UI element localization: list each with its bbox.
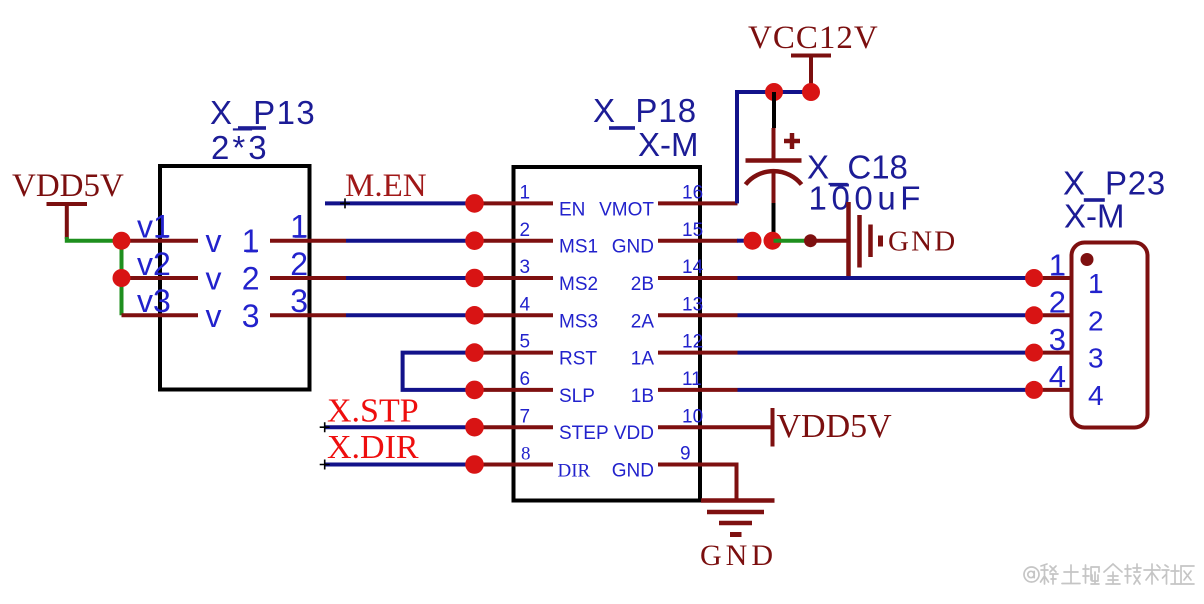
svg-text:100uF: 100uF bbox=[809, 180, 926, 217]
svg-text:X-M: X-M bbox=[638, 126, 699, 163]
svg-text:MS2: MS2 bbox=[559, 274, 598, 295]
cursor cross bbox=[320, 460, 330, 470]
junction dot pin3 bbox=[465, 269, 484, 288]
pin v2 of X_P13 bbox=[122, 246, 222, 297]
wire X.DIR to DIR bbox=[325, 463, 475, 467]
svg-text:16: 16 bbox=[682, 183, 703, 204]
wire green pin15 bbox=[774, 239, 812, 243]
pin 1 of X_P13 bbox=[242, 209, 346, 260]
wire 1A to X_P23 pin3 bbox=[738, 351, 1035, 355]
cursor cross bbox=[320, 422, 330, 432]
wire pin15 stub blue bbox=[737, 239, 747, 243]
IC X_P18 bbox=[514, 167, 701, 501]
svg-text:6: 6 bbox=[520, 369, 531, 390]
wire 2B to X_P23 pin1 bbox=[738, 276, 1035, 280]
junction dot v2 bbox=[113, 269, 131, 287]
wire X_P13 pin1 to MS1 bbox=[346, 239, 475, 243]
svg-text:MS3: MS3 bbox=[559, 311, 598, 332]
svg-text:4: 4 bbox=[1049, 359, 1066, 394]
svg-text:v3: v3 bbox=[137, 283, 171, 319]
wire green bus v1-v3 bbox=[120, 241, 124, 316]
wire green VDD5V to v1 bbox=[67, 237, 122, 241]
svg-text:15: 15 bbox=[682, 220, 703, 241]
svg-text:1: 1 bbox=[520, 183, 531, 204]
svg-text:3: 3 bbox=[1088, 343, 1104, 374]
polarity dot X_P23 bbox=[1081, 253, 1094, 266]
wire X_P13 pin2 to MS2 bbox=[346, 276, 475, 280]
svg-text:4: 4 bbox=[1088, 380, 1104, 411]
junction dot v1 bbox=[113, 232, 131, 250]
junction dot pin4 bbox=[465, 306, 484, 325]
svg-text:v2: v2 bbox=[137, 246, 171, 282]
svg-text:VCC12V: VCC12V bbox=[748, 20, 879, 56]
junction dot pin8 bbox=[465, 455, 484, 474]
wire to GND symbol bbox=[811, 239, 849, 243]
svg-text:2: 2 bbox=[1049, 285, 1066, 320]
svg-text:4: 4 bbox=[520, 294, 531, 315]
svg-text:v1: v1 bbox=[137, 209, 171, 245]
svg-text:VDD5V: VDD5V bbox=[777, 408, 893, 445]
svg-text:2B: 2B bbox=[631, 274, 654, 295]
junction dot pin2 bbox=[465, 231, 484, 250]
svg-text:3: 3 bbox=[520, 257, 531, 278]
pin 3 of X_P23 bbox=[1034, 322, 1104, 374]
wire X_P13 pin3 to MS3 bbox=[346, 313, 475, 317]
junction dot P23 pin3 bbox=[1025, 344, 1043, 362]
wire M.EN to pin1 bbox=[325, 201, 475, 205]
svg-text:STEP: STEP bbox=[559, 423, 609, 444]
digit serif feet bbox=[157, 207, 1102, 293]
pin v1 of X_P13 bbox=[122, 209, 222, 260]
pin 14 2B bbox=[631, 257, 738, 295]
svg-text:GND: GND bbox=[700, 539, 777, 572]
svg-text:DIR: DIR bbox=[558, 461, 591, 482]
junction dot pin15 b bbox=[764, 232, 782, 250]
svg-text:1: 1 bbox=[290, 209, 308, 245]
wire cap bottom (black) bbox=[772, 203, 776, 236]
watermark bbox=[1024, 564, 1194, 584]
cursor cross bbox=[340, 198, 350, 208]
wire RST to SLP loop bbox=[403, 353, 475, 390]
svg-text:2: 2 bbox=[520, 220, 531, 241]
svg-text:3: 3 bbox=[290, 283, 308, 319]
svg-text:GND: GND bbox=[888, 226, 957, 258]
svg-text:v: v bbox=[206, 261, 222, 297]
ground GND (side) bbox=[849, 202, 958, 280]
svg-text:2: 2 bbox=[290, 246, 308, 282]
svg-text:X_P13: X_P13 bbox=[210, 94, 316, 131]
pin 8 DIR bbox=[475, 444, 591, 482]
pin 4 of X_P23 bbox=[1034, 359, 1104, 411]
wire 1B to X_P23 pin4 bbox=[738, 388, 1035, 392]
svg-text:10: 10 bbox=[682, 406, 703, 427]
pin 1 of X_P23 bbox=[1034, 247, 1104, 299]
svg-text:MS1: MS1 bbox=[559, 237, 598, 258]
svg-text:VDD: VDD bbox=[614, 423, 654, 444]
junction dot pin7 bbox=[465, 418, 484, 437]
pin 4 MS3 bbox=[475, 294, 599, 332]
svg-text:RST: RST bbox=[559, 349, 597, 370]
svg-text:7: 7 bbox=[520, 406, 531, 427]
svg-text:11: 11 bbox=[682, 369, 702, 390]
junction dot pin5 bbox=[465, 343, 484, 362]
svg-text:14: 14 bbox=[682, 257, 704, 278]
junction dot P23 pin2 bbox=[1025, 306, 1043, 324]
pin 3 of X_P13 bbox=[242, 283, 346, 334]
wire 2A to X_P23 pin2 bbox=[738, 313, 1035, 317]
svg-text:GND: GND bbox=[612, 237, 654, 258]
pin 13 2A bbox=[631, 294, 738, 332]
pin 7 STEP bbox=[475, 406, 609, 444]
svg-text:X_P23: X_P23 bbox=[1063, 165, 1166, 202]
svg-text:5: 5 bbox=[520, 332, 531, 353]
pin v3 of X_P13 bbox=[122, 283, 222, 334]
junction dot pin6 bbox=[465, 381, 484, 400]
pin 11 1B bbox=[631, 369, 738, 407]
power symbol VDD5V (pin10) bbox=[773, 408, 893, 447]
svg-text:X_P18: X_P18 bbox=[593, 92, 697, 129]
svg-text:X.STP: X.STP bbox=[327, 392, 419, 429]
svg-text:M.EN: M.EN bbox=[345, 168, 427, 204]
pin 15 GND bbox=[612, 220, 738, 258]
junction dot dark bbox=[804, 234, 817, 247]
svg-text:1B: 1B bbox=[631, 386, 654, 407]
pin 6 SLP bbox=[475, 369, 595, 407]
svg-text:v: v bbox=[206, 223, 222, 259]
junction dot pin15 a bbox=[744, 232, 762, 250]
svg-text:8: 8 bbox=[521, 444, 531, 465]
pin 1 EN bbox=[475, 183, 586, 221]
pin 2 of X_P23 bbox=[1034, 285, 1104, 337]
svg-text:VDD5V: VDD5V bbox=[12, 168, 124, 204]
pin 12 1A bbox=[631, 332, 738, 370]
svg-text:2: 2 bbox=[242, 261, 260, 297]
pin 10 VDD bbox=[614, 406, 773, 444]
svg-text:SLP: SLP bbox=[559, 386, 595, 407]
svg-text:X.DIR: X.DIR bbox=[327, 429, 419, 466]
pin 3 MS2 bbox=[475, 257, 599, 295]
svg-text:v: v bbox=[206, 298, 222, 334]
svg-text:EN: EN bbox=[559, 199, 585, 220]
wire VMOT to VCC12V bbox=[737, 92, 811, 203]
junction dot VCC b bbox=[802, 83, 820, 101]
svg-text:1A: 1A bbox=[631, 349, 655, 370]
svg-text:1: 1 bbox=[1049, 247, 1066, 282]
svg-text:9: 9 bbox=[680, 444, 691, 465]
svg-text:13: 13 bbox=[682, 294, 703, 315]
ground GND (bottom) bbox=[700, 501, 777, 573]
junction dot VCC a bbox=[765, 83, 783, 101]
connector X_P13 bbox=[160, 166, 310, 390]
pin 9 GND bbox=[612, 444, 737, 501]
svg-text:2A: 2A bbox=[631, 311, 655, 332]
connector X_P23 bbox=[1072, 243, 1148, 428]
wire cap top (black) bbox=[772, 92, 776, 128]
svg-text:1: 1 bbox=[1088, 268, 1104, 299]
svg-text:3: 3 bbox=[242, 298, 260, 334]
svg-text:2: 2 bbox=[1088, 305, 1104, 336]
pin 2 of X_P13 bbox=[242, 246, 346, 297]
wire X.STP to STEP bbox=[325, 425, 475, 429]
junction dot P23 pin4 bbox=[1025, 381, 1043, 399]
pin 2 MS1 bbox=[475, 220, 599, 258]
junction dot P23 pin1 bbox=[1025, 269, 1043, 287]
svg-text:GND: GND bbox=[612, 461, 654, 482]
svg-text:X-M: X-M bbox=[1064, 198, 1125, 235]
svg-text:2*3: 2*3 bbox=[211, 129, 270, 166]
pin 5 RST bbox=[475, 332, 598, 370]
svg-text:VMOT: VMOT bbox=[599, 199, 654, 220]
capacitor C18 bbox=[746, 128, 802, 203]
pin 16 VMOT bbox=[599, 183, 737, 221]
power symbol VCC12V bbox=[748, 20, 879, 92]
power symbol VDD5V (left) bbox=[12, 168, 124, 239]
svg-text:3: 3 bbox=[1049, 322, 1066, 357]
svg-text:1: 1 bbox=[242, 223, 260, 259]
svg-text:12: 12 bbox=[682, 332, 703, 353]
junction dot pin1 bbox=[465, 194, 484, 213]
